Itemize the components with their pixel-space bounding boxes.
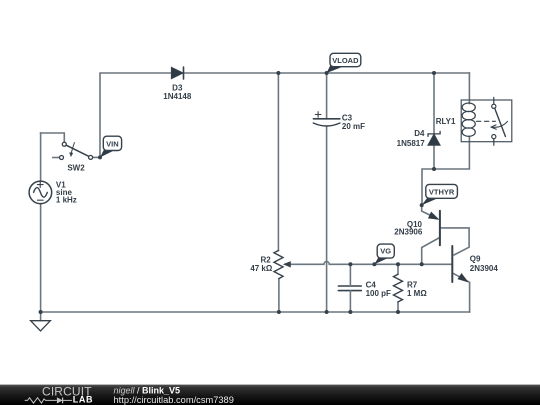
svg-text:D4: D4: [414, 129, 425, 138]
svg-text:47 kΩ: 47 kΩ: [250, 264, 273, 273]
svg-text:LAB: LAB: [73, 394, 93, 404]
svg-text:VIN: VIN: [106, 139, 119, 148]
svg-text:VLOAD: VLOAD: [332, 56, 359, 65]
svg-text:1 MΩ: 1 MΩ: [407, 289, 427, 298]
svg-text:2N3906: 2N3906: [394, 227, 423, 236]
svg-text:VTHYR: VTHYR: [429, 187, 455, 196]
svg-text:1 kHz: 1 kHz: [56, 196, 77, 205]
svg-text:VG: VG: [380, 247, 391, 256]
svg-text:1N4148: 1N4148: [163, 92, 192, 101]
svg-text:C3: C3: [342, 113, 353, 122]
svg-text:RLY1: RLY1: [436, 117, 456, 126]
svg-text:100 pF: 100 pF: [366, 289, 391, 298]
svg-text:http://circuitlab.com/csm7389: http://circuitlab.com/csm7389: [114, 395, 234, 405]
svg-text:1N5817: 1N5817: [397, 139, 426, 148]
svg-text:nigell / Blink_V5: nigell / Blink_V5: [114, 385, 181, 395]
svg-text:R2: R2: [260, 256, 271, 265]
svg-text:20 mF: 20 mF: [342, 122, 365, 131]
svg-text:Q9: Q9: [470, 255, 481, 264]
svg-text:SW2: SW2: [67, 164, 85, 173]
svg-text:2N3904: 2N3904: [470, 264, 499, 273]
